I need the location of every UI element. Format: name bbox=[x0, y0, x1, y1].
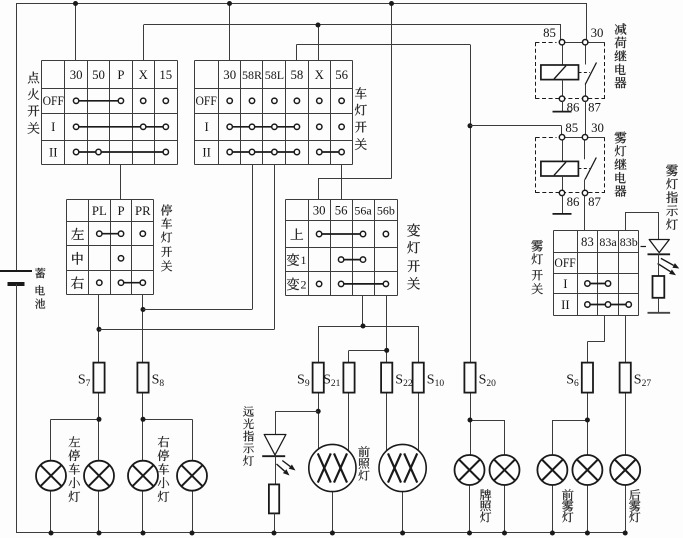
battery B1 bbox=[0, 271, 32, 284]
node stub right of fog switch header bbox=[641, 246, 647, 248]
svg-text:83: 83 bbox=[581, 235, 594, 249]
resistor R2 bbox=[653, 276, 665, 298]
fog switch contacts row I: 83-83a bridged bbox=[585, 281, 611, 286]
label: high-beam indicator 远光指示灯 bbox=[243, 406, 254, 465]
wire: X bus to load-reduction relay terminal 85 bbox=[560, 25, 562, 40]
wire: top bus to load-reduction relay terminal 30 bbox=[586, 4, 588, 40]
dimmer contacts row 变1: 56-56a bridged bbox=[338, 257, 365, 262]
label: rear fog lamp 后雾灯 bbox=[629, 489, 640, 522]
terminal: relay K2 85 bbox=[559, 135, 564, 140]
row labels: ignition OFF I II bbox=[43, 94, 64, 159]
wire: relay K2 internal top 85-30 bbox=[562, 137, 605, 139]
resistor R1 bbox=[269, 484, 279, 513]
junction: top bus / dimmer 30 feed bbox=[389, 1, 394, 6]
wire: headlamp right to ground bus bbox=[402, 492, 404, 533]
headlamp E5 left (double filament) bbox=[309, 444, 356, 491]
label: ignition switch 点火开关 bbox=[28, 72, 40, 134]
lamp E3 right parking bbox=[128, 461, 158, 491]
svg-text:OFF: OFF bbox=[43, 94, 64, 108]
parking switch contacts row 右: PL, P-PR bridged bbox=[97, 280, 146, 285]
junction: top bus / light switch 30 bbox=[227, 1, 232, 6]
label: light switch 车灯开关 bbox=[355, 87, 367, 150]
net 58: light switch 58 to fog relay 85 and fuse S20 bbox=[297, 45, 471, 363]
light switch table bbox=[195, 61, 353, 165]
relay K1 coil bbox=[541, 45, 579, 96]
junction bbox=[502, 531, 507, 536]
svg-text:PL: PL bbox=[92, 204, 107, 218]
terminal: relay K2 86 bbox=[559, 190, 564, 195]
LED D2 fog indicator bbox=[648, 240, 671, 255]
label: dimmer switch 变灯开关 bbox=[407, 224, 420, 290]
relay K2 contact (normally open) bbox=[585, 140, 597, 191]
wire: fuse S8 to right parking lamps bbox=[143, 393, 193, 461]
junction: 56a feed bbox=[361, 324, 366, 329]
wire: relay K2 87 to fog switch 83 bbox=[584, 196, 586, 231]
wire: fog switch 83b to fog indicator bbox=[626, 212, 659, 240]
terminal: relay K2 30 bbox=[582, 135, 587, 140]
label: battery 蓄电池 bbox=[35, 268, 45, 309]
svg-text:II: II bbox=[561, 298, 570, 312]
ignition contacts row II: 30-50-15 bridged bbox=[73, 149, 168, 154]
junction: net 58 / fog relay coil branch bbox=[468, 123, 473, 128]
pin labels: dimmer 30 56 56a 56b bbox=[313, 204, 395, 218]
fuse S10 bbox=[413, 363, 445, 393]
row labels: dimmer 上 变1 变2 bbox=[287, 228, 307, 291]
wire: link PL to light switch 58L bbox=[99, 329, 275, 331]
wire: headlamp left to ground bus bbox=[332, 492, 334, 533]
junction: S7 output bbox=[97, 417, 102, 422]
row labels: fog switch OFF I II bbox=[554, 256, 575, 312]
lamp E2 left parking bbox=[84, 461, 114, 491]
light switch contacts row OFF: all open bbox=[227, 98, 344, 103]
svg-text:I: I bbox=[563, 277, 567, 291]
ignition contacts row OFF: 30-P bridged, X, 15 bbox=[73, 98, 168, 103]
fog switch contacts row II: 83-83a-83b bridged bbox=[585, 302, 632, 307]
wire: light switch 56 to dimmer switch 56 bbox=[341, 164, 343, 200]
svg-text:15: 15 bbox=[159, 68, 172, 82]
fog lamp switch table bbox=[554, 231, 639, 316]
svg-text:86: 86 bbox=[567, 195, 580, 209]
svg-text:83a: 83a bbox=[599, 235, 617, 249]
label: left parking lamps 左停车小灯 bbox=[69, 436, 80, 502]
fog lamp relay K2 dashed enclosure bbox=[536, 137, 605, 193]
wire: LED D1 to resistor R1 bbox=[275, 456, 277, 484]
net X: ignition X to light switch X bus bbox=[144, 25, 562, 62]
label: parking lamp switch 停车灯开关 bbox=[161, 204, 172, 271]
junction bbox=[49, 531, 54, 536]
wire: battery positive top bus bbox=[16, 3, 587, 5]
svg-text:OFF: OFF bbox=[554, 256, 575, 270]
wire: front fog lamp 2 to ground bus bbox=[587, 485, 589, 533]
svg-text:58R: 58R bbox=[242, 68, 262, 82]
svg-text:56a: 56a bbox=[354, 204, 372, 218]
parking lamp switch table bbox=[67, 200, 154, 295]
wire: dimmer 56b to fuses S22 S21 bbox=[349, 296, 387, 363]
wire: light switch 58L down-link bbox=[274, 164, 276, 329]
ignition contacts row I: 30-X-15 bridged bbox=[73, 124, 168, 129]
wire: ignition P to parking lamp switch P bbox=[120, 164, 122, 199]
fuse S20 bbox=[464, 363, 496, 393]
svg-text:30: 30 bbox=[223, 68, 236, 82]
terminal: relay K2 87 bbox=[582, 190, 587, 195]
svg-text:1: 1 bbox=[301, 253, 307, 267]
wire: parking PL to fuse S7 bbox=[98, 295, 100, 363]
svg-text:I: I bbox=[204, 120, 208, 134]
wire: battery negative lead bbox=[16, 284, 18, 533]
lamp E10 front fog bbox=[572, 455, 602, 485]
pin labels: fog switch 83 83a 83b bbox=[581, 235, 638, 249]
junction bbox=[190, 531, 195, 536]
wire: dimmer 56a to fuses S9 S10 bbox=[318, 296, 418, 363]
wire: fuse S6 to front fog lamps bbox=[552, 393, 587, 456]
row labels: parking switch 左 中 右 bbox=[71, 228, 83, 289]
wire: resistor R2 to ground bbox=[658, 298, 660, 313]
svg-text:50: 50 bbox=[92, 68, 105, 82]
wire: S9 tap to high-beam indicator LED D1 bbox=[275, 411, 318, 434]
wire: front fog lamp 1 to ground bus bbox=[552, 485, 554, 533]
fuse S27 bbox=[620, 363, 652, 393]
parking switch contacts row 中: P bbox=[118, 256, 123, 261]
junction: 56b / S21 branch bbox=[384, 348, 389, 353]
light arrows of LED D1 bbox=[277, 461, 296, 476]
pin labels: parking switch PL P PR bbox=[92, 204, 151, 218]
wire: license lamp 1 to ground bus bbox=[469, 485, 471, 533]
label: fog indicator 雾灯指示灯 bbox=[666, 164, 678, 230]
wire: link PR to light switch 58R bbox=[143, 309, 252, 311]
junction bbox=[550, 531, 555, 536]
svg-text:56: 56 bbox=[335, 204, 348, 218]
svg-text:PR: PR bbox=[135, 204, 151, 218]
svg-text:30: 30 bbox=[313, 204, 326, 218]
fuse S9 bbox=[297, 363, 324, 393]
svg-text:OFF: OFF bbox=[196, 94, 217, 108]
row labels: light switch OFF I II bbox=[196, 94, 217, 159]
wire: relay K1 internal top 85-30 bbox=[562, 42, 605, 44]
svg-text:58: 58 bbox=[291, 68, 304, 82]
junction bbox=[141, 531, 146, 536]
wire: fuse S9 to headlamp left bbox=[318, 393, 320, 450]
junction bbox=[585, 531, 590, 536]
pin labels: relay K2 85 30 86 87 bbox=[565, 121, 603, 209]
fuse S7 bbox=[78, 363, 105, 393]
junction bbox=[97, 531, 102, 536]
wire: net 58 branch to fog relay terminal 85 bbox=[470, 126, 562, 135]
lamp E4 right parking bbox=[177, 461, 207, 491]
svg-text:30: 30 bbox=[591, 121, 604, 135]
wire: LED D2 to resistor R2 bbox=[658, 254, 660, 276]
junction: PL / 58L link bbox=[97, 327, 102, 332]
label: headlamps 前照灯 bbox=[358, 446, 369, 481]
junction bbox=[623, 531, 628, 536]
load-reduction relay K1 dashed enclosure bbox=[535, 42, 605, 98]
relay K1 coil-contact dashed link bbox=[579, 72, 591, 74]
svg-text:II: II bbox=[49, 146, 58, 160]
headlamp E6 right (double filament) bbox=[379, 444, 426, 491]
svg-text:85: 85 bbox=[543, 26, 556, 40]
wire: relay K1 87 to fog relay 30 bbox=[585, 101, 587, 134]
wire: fuse S10 to headlamp right bbox=[418, 393, 420, 451]
pin labels: relay K1 85 30 86 87 bbox=[543, 26, 603, 115]
lamp E11 rear fog bbox=[610, 455, 640, 485]
junction: top bus / ignition 30 bbox=[73, 1, 78, 6]
wire: fog switch 83b to fuse S27 bbox=[625, 315, 627, 362]
label: fog lamp switch 雾灯开关 bbox=[531, 240, 543, 294]
label: load-reduction relay 减荷继电器 bbox=[615, 23, 627, 88]
wire: parking PR to fuse S8 bbox=[142, 295, 144, 363]
svg-text:30: 30 bbox=[591, 26, 604, 40]
wire: battery positive drop to ignition switch terminal 30 bbox=[75, 4, 77, 62]
wire: light switch 58R down-link bbox=[252, 164, 254, 310]
ground: fog indicator branch bbox=[648, 312, 671, 314]
terminal: relay K1 86 bbox=[559, 96, 564, 101]
junction: indicator branch / ground bus bbox=[272, 531, 277, 536]
wire: left parking lamp 1 to ground bus bbox=[50, 491, 52, 533]
terminal: relay K1 87 bbox=[583, 96, 588, 101]
light switch contacts row II: 30-58R-58L-58 and X-56 bridged bbox=[227, 149, 344, 154]
light arrows of LED D2 bbox=[658, 258, 680, 275]
terminal: relay K1 30 bbox=[583, 40, 588, 45]
junction bbox=[400, 531, 405, 536]
lamp E1 left parking bbox=[36, 461, 66, 491]
pin labels: ignition 30 50 P X 15 bbox=[70, 68, 172, 82]
wire: battery positive feed to dimmer switch terminal 30 bbox=[318, 4, 392, 200]
label: right parking lamps 右停车小灯 bbox=[158, 436, 169, 502]
ground: relay K1 terminal 86 bbox=[553, 101, 572, 111]
wire: left battery lead bbox=[16, 4, 18, 272]
junction: S9 output / high-beam indicator tap bbox=[316, 409, 321, 414]
label: front fog lamps 前雾灯 bbox=[562, 489, 573, 522]
svg-text:56b: 56b bbox=[377, 204, 395, 218]
lamp E8 license plate bbox=[490, 455, 520, 485]
fuse S22 bbox=[381, 363, 413, 393]
svg-text:P: P bbox=[117, 68, 124, 82]
wire: ground bottom bus bbox=[16, 532, 625, 534]
svg-text:X: X bbox=[139, 68, 149, 82]
pin labels: light switch 30 58R 58L 58 X 56 bbox=[223, 68, 348, 82]
fuse S21 bbox=[323, 363, 354, 393]
svg-text:85: 85 bbox=[565, 121, 578, 135]
light switch contacts row I: 30-58R-58L-58 bridged bbox=[227, 124, 344, 129]
svg-text:56: 56 bbox=[335, 68, 348, 82]
wire: fuse S21 to headlamp left bbox=[348, 393, 350, 452]
wire: left parking lamp 2 to ground bus bbox=[98, 491, 100, 533]
wire: rear fog lamp to ground bus bbox=[625, 485, 627, 533]
svg-text:83b: 83b bbox=[620, 235, 638, 249]
junction bbox=[330, 531, 335, 536]
svg-text:87: 87 bbox=[588, 195, 601, 209]
wire: right parking lamp 1 to ground bus bbox=[142, 491, 144, 533]
junction: X bus / light switch X bbox=[316, 23, 321, 28]
lamp E9 front fog bbox=[537, 455, 567, 485]
fuse S6 bbox=[566, 363, 593, 393]
label: license plate lamps 牌照灯 bbox=[480, 489, 491, 522]
ground: relay K2 terminal 86 bbox=[553, 196, 572, 214]
terminal: relay K1 85 bbox=[559, 40, 564, 45]
wire: fog switch 83a to fuse S6 bbox=[587, 315, 604, 362]
svg-text:P: P bbox=[117, 204, 124, 218]
label: fog lamp relay 雾灯继电器 bbox=[615, 131, 627, 196]
wire: fuse S27 to rear fog lamp bbox=[625, 393, 627, 456]
svg-text:II: II bbox=[202, 146, 211, 160]
relay K2 coil bbox=[541, 140, 579, 191]
svg-text:2: 2 bbox=[301, 277, 307, 291]
svg-text:58L: 58L bbox=[265, 68, 284, 82]
fuse S8 bbox=[137, 363, 164, 393]
junction: PR / 58R link bbox=[141, 307, 146, 312]
relay K1 contact (normally open) bbox=[585, 45, 596, 96]
svg-text:87: 87 bbox=[588, 101, 601, 115]
parking switch contacts row 左: PL-P bridged, PR bbox=[97, 231, 146, 236]
junction: S20 output bbox=[468, 418, 473, 423]
wire: right parking lamp 2 to ground bus bbox=[192, 491, 194, 533]
wire: license lamp 2 to ground bus bbox=[504, 485, 506, 533]
svg-text:X: X bbox=[315, 68, 325, 82]
ignition switch table bbox=[42, 61, 178, 165]
dimmer contacts row 上: 30-56a bridged, 56b bbox=[316, 231, 388, 236]
LED D1 high-beam indicator bbox=[262, 435, 286, 457]
junction: S8 output bbox=[141, 417, 146, 422]
junction: S6 output bbox=[585, 418, 590, 423]
dimmer contacts row 变2: 30, 56-56b bridged bbox=[316, 281, 388, 286]
wire: resistor R1 to ground bus bbox=[274, 513, 276, 533]
dimmer switch table bbox=[286, 200, 398, 296]
svg-text:I: I bbox=[51, 120, 55, 134]
wire: fuse S22 to headlamp right bbox=[386, 393, 388, 451]
wire: fuse S7 to left parking lamps bbox=[51, 393, 100, 461]
junction bbox=[467, 531, 472, 536]
wire: battery positive drop to light switch terminal 30 bbox=[229, 4, 231, 62]
wire: fuse S20 to license plate lamps bbox=[470, 393, 505, 456]
relay K2 coil-contact dashed link bbox=[578, 168, 590, 170]
svg-text:30: 30 bbox=[70, 68, 83, 82]
lamp E7 license plate bbox=[455, 455, 485, 485]
